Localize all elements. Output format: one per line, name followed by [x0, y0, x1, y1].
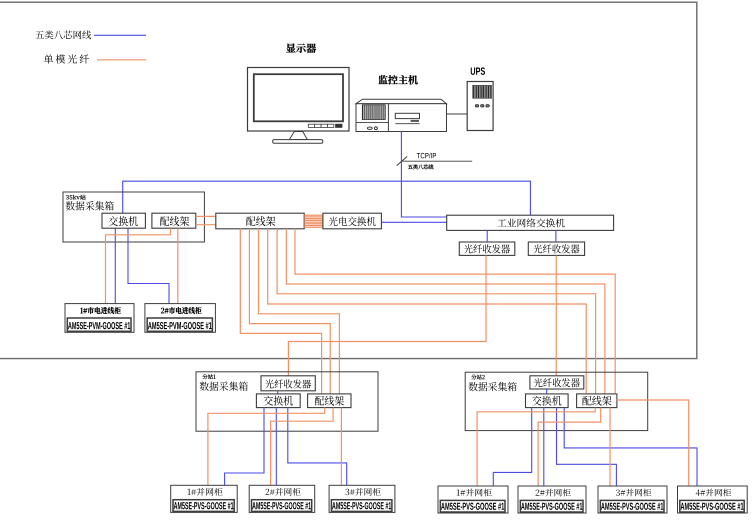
patch panel 配线架 (35kv)	[152, 213, 196, 228]
monitor screen	[254, 74, 343, 121]
wire: blue switch to grid cabinet 4 (substation2)	[564, 408, 697, 486]
host case top face	[356, 99, 447, 104]
switch 交换机 (substation2)	[526, 394, 569, 408]
host label 监控主机	[378, 75, 417, 84]
wire: orange patch panel to grid cabinet 2 (substation1)	[271, 408, 334, 486]
UPS cabinet	[467, 82, 493, 131]
legend: single-mode fiber label 单模光纤	[44, 54, 89, 63]
grid cabinet 1#并网柜 (substation2)	[438, 486, 508, 513]
wire: blue switch to grid cabinet 1 (substation1)	[225, 408, 264, 486]
fiber transceiver 光纤收发器 (right)	[528, 242, 584, 255]
wire: blue switch to grid cabinet 3 (substation1)	[288, 408, 347, 486]
host vent grille	[362, 105, 385, 120]
wire: fiber fan 3 patch panel to substation	[277, 229, 595, 394]
legend: orange sample wire (fiber)	[97, 59, 146, 61]
label 35kv站	[66, 195, 86, 200]
grid cabinet 1#并网柜 (substation1)	[171, 485, 238, 512]
label 数据采集箱 (substation1)	[200, 381, 248, 390]
wire: fiber fan 2 patch panel to substation	[286, 229, 605, 394]
main patch panel 配线架	[216, 213, 304, 229]
fiber transceiver 光纤收发器 (substation1)	[261, 376, 315, 391]
wire: orange patch panel to grid cabinet 3 (substation2)	[609, 408, 611, 486]
wire: fiber fan 7 patch panel to substation	[240, 229, 321, 394]
UPS label	[471, 67, 485, 75]
switch 交换机 (substation1)	[256, 394, 300, 408]
wire: blue bus switch to industrial switch	[123, 181, 531, 215]
industrial network switch 工业网络交换机	[447, 215, 614, 230]
wire: host to UPS	[447, 113, 468, 115]
wire: orange patch panel to grid cabinet 3 (substation1)	[340, 408, 342, 486]
UPS vent grille	[473, 85, 492, 98]
label 数据采集箱 (35kv)	[66, 201, 114, 210]
host panel divider	[387, 104, 389, 132]
wire: fiber fan 1 patch panel to substation	[295, 229, 615, 394]
monitor stand neck	[289, 132, 307, 140]
TCP/IP label	[417, 153, 436, 159]
host power button and led	[367, 127, 377, 130]
legend: blue sample wire (cat5e)	[94, 34, 146, 36]
wire: orange patch panel right edge to grid cabinet 4 (substation2)	[617, 400, 689, 486]
wire: blue switch to grid cabinet 2 (substation2)	[543, 408, 545, 486]
host case front	[356, 104, 447, 132]
fiber transceiver 光纤收发器 (substation2)	[530, 376, 584, 389]
substation2 box 数据采集箱	[465, 372, 648, 430]
switch 交换机 (35kv)	[102, 213, 145, 228]
patch panel 配线架 (substation2)	[577, 394, 617, 408]
wire: blue switch to cabinet2	[128, 228, 169, 303]
UPS indicator buttons	[475, 105, 489, 107]
grid cabinet 2#并网柜 (substation1)	[249, 485, 315, 512]
wire: fiber fan 6 patch panel to substation	[249, 229, 330, 394]
label 数据采集箱 (substation2)	[469, 382, 517, 391]
grid cabinet 4#并网柜 (substation2)	[678, 486, 748, 513]
wire: blue switch to grid cabinet 1 (substation2)	[493, 408, 531, 486]
host cd drive	[395, 113, 419, 122]
legend: cat5e network cable label 五类八芯网线	[35, 31, 91, 40]
wire: blue switch to grid cabinet 3 (substation2)	[557, 408, 617, 486]
mains cabinet 2#市电进线柜 AM5SE-PVM-GOOSE	[145, 304, 216, 333]
host front groove line	[395, 123, 419, 125]
wire: fiber fan 4 patch panel to substation	[268, 229, 587, 394]
wire: blue switch to grid cabinet 2 (substation1)	[275, 408, 277, 486]
wire: blue switch to cabinet1	[114, 228, 116, 303]
outer frame border	[0, 2, 697, 358]
label 分站2	[471, 375, 484, 380]
wire: blue stub industrial switch to right transceiver	[555, 230, 557, 242]
monitor bezel	[248, 68, 350, 132]
wire: blue link optical switch to industrial switch	[381, 221, 446, 223]
35kv station data collection box 数据采集箱	[63, 192, 204, 242]
wire: orange patch panel to grid cabinet 1 (substation1)	[208, 408, 325, 486]
monitor buttons	[308, 124, 342, 128]
grid cabinet 3#并网柜 (substation2)	[598, 486, 667, 513]
wire: orange patch panel to cabinet2	[177, 228, 179, 303]
substation1 box 数据采集箱	[196, 372, 378, 431]
fiber transceiver 光纤收发器 (left)	[459, 242, 515, 255]
grid cabinet 3#并网柜 (substation1)	[329, 485, 395, 512]
TCP/IP leader line	[402, 160, 472, 162]
monitor label 显示器	[286, 43, 316, 53]
wire: fiber left transceiver to substation1 transceiver	[288, 255, 486, 375]
optical-electrical switch 光电交换机	[323, 213, 382, 229]
wire: blue stub transceiver to switch (substation1)	[277, 391, 279, 394]
monitor stand base	[273, 140, 323, 144]
label 分站1	[202, 374, 215, 379]
grid cabinet 2#并网柜 (substation2)	[518, 486, 586, 513]
label 五类八芯线 under leader	[408, 164, 433, 169]
wire: orange patch panel to cabinet1	[106, 228, 171, 303]
patch panel 配线架 (substation1)	[308, 394, 351, 408]
fiber bundle patch panel to optical switch	[304, 215, 323, 227]
mains cabinet 1#市电进线柜 AM5SE-PVM-GOOSE	[65, 304, 134, 333]
wire: blue drop from host to industrial switch	[401, 132, 446, 218]
wire: blue stub transceiver to switch (substation2)	[546, 389, 548, 394]
wire: orange pair 35kv patch panel to main patch panel	[196, 215, 216, 217]
wire: fiber right transceiver to substation2 transceiver	[555, 255, 557, 375]
wire: orange patch panel to grid cabinet 2 (substation2)	[538, 408, 601, 486]
host lower-left panel line	[356, 122, 388, 124]
wire: fiber fan 5 patch panel to substation	[259, 229, 340, 394]
wire: blue stub industrial switch to left transceiver	[486, 230, 488, 242]
TCP/IP slash tick	[397, 157, 408, 166]
wire: orange patch panel to grid cabinet 1 (substation2)	[477, 408, 595, 486]
